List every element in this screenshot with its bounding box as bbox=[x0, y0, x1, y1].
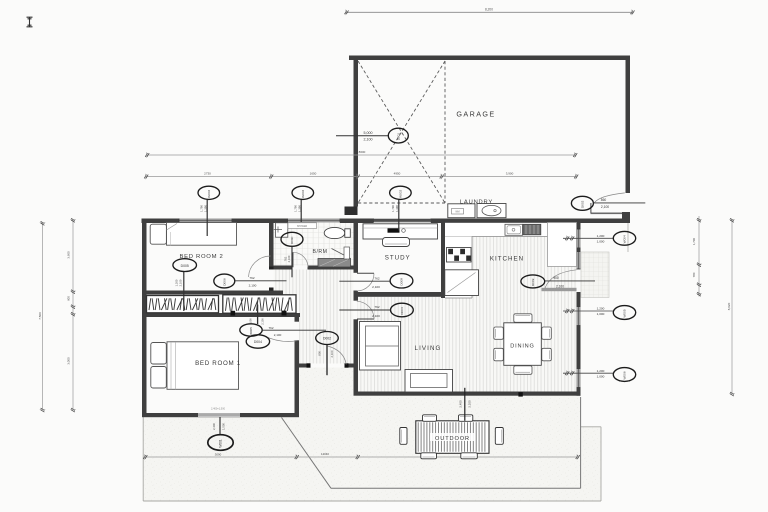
svg-text:8600: 8600 bbox=[359, 150, 366, 154]
svg-text:2,100: 2,100 bbox=[372, 314, 380, 318]
svg-text:1,390: 1,390 bbox=[204, 205, 208, 212]
window tag W002 at x208.8 bbox=[206, 200, 208, 236]
bedroom1 east wall upper bbox=[295, 313, 300, 322]
svg-text:WM: WM bbox=[455, 211, 459, 214]
bedroom2 window in top wall bbox=[179, 219, 232, 223]
living door swing bbox=[357, 301, 374, 319]
svg-text:762: 762 bbox=[249, 276, 254, 280]
dining chair west2 bbox=[494, 348, 504, 361]
bedroom2 bed bbox=[167, 223, 237, 246]
bedroom1 bottom window bbox=[198, 413, 240, 416]
kitchen side door leaf bbox=[542, 288, 577, 291]
svg-text:1,200: 1,200 bbox=[174, 279, 178, 286]
svg-text:1,790: 1,790 bbox=[294, 205, 298, 212]
dining chair east1 bbox=[542, 327, 552, 339]
svg-text:D004: D004 bbox=[254, 340, 262, 344]
study bottom wall bbox=[354, 292, 446, 297]
kitchen top counter bbox=[445, 223, 549, 237]
kitchen drainer bbox=[523, 224, 541, 235]
site boundary right bbox=[600, 427, 602, 501]
svg-text:2,100: 2,100 bbox=[372, 285, 380, 289]
bathroom door leaf bbox=[292, 252, 294, 267]
svg-text:KITCHEN: KITCHEN bbox=[490, 256, 524, 263]
laundry sink bbox=[477, 204, 506, 218]
svg-text:2,100: 2,100 bbox=[274, 333, 282, 337]
svg-text:LIVING: LIVING bbox=[415, 345, 442, 352]
svg-text:1,790: 1,790 bbox=[391, 205, 395, 212]
bedroom2 door jamb cap upper bbox=[269, 267, 274, 270]
entry porch tiles bbox=[581, 252, 609, 298]
east window dimension at y311 bbox=[563, 310, 613, 312]
garage left wall bbox=[354, 56, 359, 207]
bedroom2 bottom wall bbox=[142, 291, 283, 295]
outdoor chair south2 bbox=[461, 453, 478, 459]
svg-text:2,100: 2,100 bbox=[287, 255, 291, 262]
wardrobe unit right bbox=[223, 295, 296, 313]
east wall window 1 lower sash bbox=[577, 252, 581, 270]
bathroom window in top wall bbox=[288, 219, 341, 223]
living door leaf bbox=[357, 318, 374, 320]
svg-text:D005: D005 bbox=[181, 264, 189, 268]
east wall segment below kitchen door bbox=[577, 292, 581, 307]
svg-text:D006: D006 bbox=[222, 278, 226, 286]
living west wall bbox=[354, 319, 359, 395]
svg-text:2,100: 2,100 bbox=[556, 285, 564, 289]
svg-text:GARAGE: GARAGE bbox=[456, 110, 495, 119]
living sofa single bbox=[405, 370, 453, 393]
svg-text:OUTDOOR: OUTDOOR bbox=[435, 436, 470, 442]
wardrobe wall post A bbox=[231, 311, 236, 316]
bedroom1 door tag upper ellipse bbox=[240, 324, 262, 336]
study door swing bbox=[357, 274, 374, 292]
entry door head wall bbox=[591, 213, 623, 215]
svg-text:W005: W005 bbox=[249, 327, 253, 335]
study door jamb post bbox=[354, 291, 359, 301]
bedroom2 east wall lower cap bbox=[269, 288, 274, 291]
right outer vertical dimension bbox=[731, 219, 733, 394]
svg-text:W002: W002 bbox=[207, 189, 211, 197]
svg-text:762: 762 bbox=[374, 305, 379, 309]
svg-text:2,100: 2,100 bbox=[330, 350, 334, 357]
svg-text:3,000: 3,000 bbox=[67, 357, 71, 365]
svg-text:5,000: 5,000 bbox=[364, 131, 373, 135]
hall floorboards upper bbox=[274, 270, 354, 291]
dining table bbox=[504, 323, 542, 366]
svg-text:12040: 12040 bbox=[321, 452, 329, 456]
dining chair south bbox=[514, 366, 532, 375]
dining chair north bbox=[514, 314, 532, 323]
svg-text:800: 800 bbox=[317, 351, 321, 356]
bathroom-study wall bbox=[354, 219, 359, 273]
kitchen door tag bbox=[521, 275, 545, 288]
svg-text:D008: D008 bbox=[400, 278, 404, 286]
bedroom2 door tag D006 bbox=[214, 274, 235, 288]
outdoor chair north2 bbox=[459, 415, 473, 422]
svg-text:1,200: 1,200 bbox=[597, 234, 605, 238]
right inner vertical dimension bbox=[698, 216, 700, 297]
svg-text:W002: W002 bbox=[301, 189, 305, 197]
bathroom door leader bbox=[291, 246, 293, 277]
east wall window 2 bbox=[577, 307, 581, 326]
bedroom1 south window tag W001 bbox=[219, 417, 221, 435]
bathroom cabinet bbox=[288, 223, 317, 229]
dining chair east2 bbox=[542, 348, 552, 361]
outdoor table bbox=[416, 421, 489, 454]
sheet marker icon bbox=[27, 17, 33, 27]
wardrobe wall post B bbox=[282, 311, 287, 316]
window tag W002 at x400.4 bbox=[398, 200, 400, 231]
east window dimension at y373.2 bbox=[563, 372, 613, 374]
bedroom1 door swing bbox=[263, 335, 297, 341]
svg-text:762: 762 bbox=[374, 276, 379, 280]
dimension line row 2730 1650 4950 3900 bbox=[145, 176, 577, 178]
toilet bbox=[324, 227, 345, 238]
svg-text:DINING: DINING bbox=[510, 343, 534, 349]
bedroom2 east wall upper bbox=[269, 219, 274, 270]
svg-text:D003: D003 bbox=[400, 307, 404, 315]
left outer wall bbox=[142, 219, 147, 418]
east wall bottom segment bbox=[577, 388, 581, 396]
svg-text:762: 762 bbox=[268, 326, 273, 330]
entry corner block bbox=[622, 212, 630, 223]
svg-text:2,400×1,500: 2,400×1,500 bbox=[211, 408, 226, 411]
svg-text:1,000: 1,000 bbox=[597, 312, 605, 316]
door tag D001 bbox=[388, 128, 408, 143]
garage left wall base block bbox=[345, 207, 358, 216]
deck edge right bbox=[580, 397, 582, 488]
wardrobe hatch right bbox=[226, 298, 293, 311]
outdoor chair east bbox=[495, 428, 503, 445]
svg-text:2,100: 2,100 bbox=[601, 205, 609, 209]
deck edge bottom bbox=[331, 487, 581, 489]
top wall east segment bbox=[431, 219, 630, 224]
top wall between bedroom2 and bathroom windows bbox=[232, 219, 288, 224]
entry door swing bbox=[594, 193, 625, 203]
site boundary bottom bbox=[143, 500, 601, 502]
bathroom vanity bbox=[276, 223, 288, 237]
hall south wall east piece bbox=[345, 364, 358, 368]
svg-text:1,000: 1,000 bbox=[597, 374, 605, 378]
svg-text:1,390: 1,390 bbox=[298, 205, 302, 212]
svg-text:2,100: 2,100 bbox=[468, 400, 472, 408]
laundry washing machine bbox=[448, 204, 475, 218]
shower tray bbox=[318, 259, 351, 268]
kitchen door leader bbox=[545, 280, 595, 282]
wardrobe door tag D005 bbox=[183, 272, 185, 311]
hall south wall west piece bbox=[299, 364, 311, 368]
svg-text:3090: 3090 bbox=[215, 452, 222, 456]
svg-text:D001: D001 bbox=[396, 133, 400, 141]
svg-text:8,020: 8,020 bbox=[727, 302, 731, 310]
study door tag D008 bbox=[390, 274, 413, 288]
svg-text:1,790: 1,790 bbox=[200, 205, 204, 212]
svg-text:1,390: 1,390 bbox=[395, 205, 399, 212]
study desk bbox=[363, 224, 438, 239]
entry door tag bbox=[571, 196, 593, 210]
svg-text:2,400: 2,400 bbox=[459, 400, 463, 408]
bedroom2 door swing bbox=[249, 256, 271, 277]
svg-text:W001: W001 bbox=[219, 439, 223, 448]
svg-text:1,000: 1,000 bbox=[597, 240, 605, 244]
svg-text:D060: D060 bbox=[290, 236, 294, 244]
outdoor paving texture bbox=[143, 417, 580, 501]
kitchen side door swing bbox=[545, 270, 577, 288]
wardrobe bottom wall bbox=[142, 313, 300, 317]
svg-text:3,600: 3,600 bbox=[67, 251, 71, 259]
svg-text:3,900: 3,900 bbox=[506, 171, 514, 175]
svg-text:W005: W005 bbox=[623, 309, 627, 317]
study window in top wall bbox=[374, 219, 432, 223]
svg-text:762: 762 bbox=[284, 256, 288, 261]
left outer vertical dimension bbox=[42, 222, 44, 410]
bedroom1 east wall lower bbox=[295, 340, 300, 417]
outdoor chair north1 bbox=[423, 415, 437, 422]
living door tag D003 bbox=[391, 303, 414, 317]
svg-text:1,790: 1,790 bbox=[692, 237, 696, 245]
outdoor table leader bbox=[464, 388, 466, 421]
deck edge diagonal bbox=[282, 418, 332, 489]
garage top wall bbox=[349, 56, 630, 61]
garage right wall bbox=[626, 56, 631, 194]
svg-text:BED ROOM 1: BED ROOM 1 bbox=[195, 360, 241, 367]
bathroom door swing bbox=[293, 252, 308, 267]
bottom wall post dot bbox=[518, 392, 522, 396]
site boundary step bbox=[581, 426, 601, 428]
svg-text:D002: D002 bbox=[323, 337, 331, 341]
kitchen and dining floorboards bbox=[445, 223, 577, 392]
svg-text:2,400: 2,400 bbox=[212, 423, 216, 430]
svg-text:860: 860 bbox=[601, 198, 607, 202]
svg-text:D002: D002 bbox=[580, 200, 584, 208]
bedroom1 door leader bbox=[262, 329, 326, 331]
svg-text:1650: 1650 bbox=[310, 171, 317, 175]
dimension line 8600 bbox=[146, 154, 576, 156]
bottom dimension line bbox=[144, 456, 579, 458]
svg-text:8,200: 8,200 bbox=[485, 8, 493, 12]
bathroom tiles bbox=[274, 223, 354, 266]
wardrobe leader for D004 bbox=[257, 305, 259, 325]
east wall mullion bbox=[577, 248, 581, 252]
east wall window 1 upper sash bbox=[577, 229, 581, 248]
outdoor chair west bbox=[400, 428, 407, 445]
svg-text:LAUNDRY: LAUNDRY bbox=[460, 200, 493, 206]
svg-text:4950: 4950 bbox=[394, 171, 401, 175]
top wall west segment bbox=[142, 219, 180, 224]
kitchen sink bbox=[505, 224, 523, 235]
hall exit door tag D002 bbox=[316, 332, 339, 345]
garage door label leader bbox=[336, 135, 388, 137]
study door leaf bbox=[357, 272, 374, 274]
bathroom door tag D060 bbox=[281, 232, 303, 246]
svg-text:900: 900 bbox=[553, 276, 559, 280]
top dimension line 8200 bbox=[345, 11, 633, 13]
east wall mid segment bbox=[577, 326, 581, 369]
svg-text:1,200: 1,200 bbox=[597, 369, 605, 373]
wardrobe hatch left bbox=[149, 298, 216, 310]
svg-text:1,200: 1,200 bbox=[597, 307, 605, 311]
svg-text:W002: W002 bbox=[398, 189, 402, 197]
svg-text:600: 600 bbox=[67, 296, 71, 301]
east wall window 3 bbox=[577, 369, 581, 388]
svg-text:2730: 2730 bbox=[204, 171, 211, 175]
entry door leader bbox=[594, 202, 646, 204]
outdoor chair south1 bbox=[421, 453, 437, 459]
shower screen diagonal bbox=[332, 249, 351, 259]
top wall segment bathroom-study bbox=[340, 219, 374, 224]
porch edge line bbox=[627, 223, 629, 253]
hall exit door swing bbox=[328, 346, 347, 364]
site boundary left bbox=[142, 417, 144, 501]
left inner vertical dimension bbox=[72, 219, 74, 410]
svg-text:W006: W006 bbox=[623, 371, 627, 379]
bedroom1 bottom wall bbox=[142, 413, 299, 417]
bedroom1 bed bbox=[167, 342, 239, 390]
garage door dashed outline bbox=[358, 61, 445, 203]
kitchen west wall bbox=[441, 219, 445, 299]
hall floorboards strip bbox=[283, 291, 354, 295]
kitchen fridge bbox=[445, 270, 479, 296]
wardrobe unit left bbox=[147, 296, 219, 313]
svg-text:SHOWER: SHOWER bbox=[297, 226, 308, 228]
towel rail bbox=[344, 247, 350, 259]
living sofa large bbox=[360, 322, 401, 371]
east window dimension at y238.3 bbox=[563, 237, 613, 239]
hall exit door leaf bbox=[326, 345, 328, 376]
kitchen left counter bbox=[445, 237, 472, 299]
entry door leaf bbox=[590, 203, 592, 213]
bathroom bottom wall west bbox=[274, 266, 293, 270]
dining chair west1 bbox=[494, 327, 504, 339]
kitchen stove bbox=[447, 248, 472, 263]
living floorboards bbox=[358, 297, 444, 392]
laptop on desk bbox=[388, 228, 400, 232]
svg-text:STUDY: STUDY bbox=[385, 254, 411, 261]
window tag W002 at x302.8 bbox=[300, 200, 302, 222]
svg-text:1,500: 1,500 bbox=[222, 423, 226, 430]
svg-text:2,100: 2,100 bbox=[249, 284, 257, 288]
svg-text:2,100: 2,100 bbox=[178, 279, 182, 286]
living-dining bottom wall bbox=[354, 392, 581, 396]
svg-text:W004: W004 bbox=[623, 235, 627, 243]
bedroom1 door tag D004 bbox=[246, 335, 269, 348]
kitchen right cupboard bbox=[548, 223, 577, 267]
svg-text:D009: D009 bbox=[531, 278, 535, 286]
svg-text:B/RM: B/RM bbox=[313, 249, 328, 255]
east wall top segment bbox=[577, 223, 581, 230]
svg-text:7,500: 7,500 bbox=[38, 312, 42, 320]
svg-text:2,100: 2,100 bbox=[261, 318, 265, 325]
svg-text:2,100: 2,100 bbox=[364, 138, 373, 142]
svg-text:780: 780 bbox=[692, 272, 696, 277]
bathroom bottom wall east bbox=[308, 266, 358, 270]
study chair bbox=[383, 238, 410, 247]
